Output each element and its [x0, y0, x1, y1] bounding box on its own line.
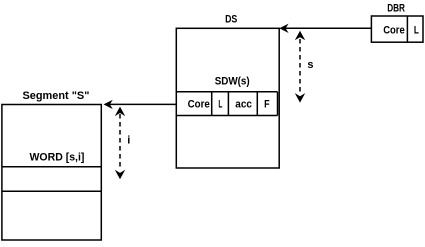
svg-text:i: i — [127, 134, 130, 146]
svg-text:L: L — [218, 99, 222, 111]
dashed line s — [299, 39, 301, 95]
arrowhead s up — [295, 31, 305, 41]
svg-text:s: s — [307, 59, 313, 71]
DBR box — [371, 16, 423, 42]
dashed line i — [119, 114, 121, 170]
DS box — [176, 28, 279, 168]
svg-text:DS: DS — [225, 13, 237, 25]
svg-text:Core: Core — [188, 99, 210, 111]
svg-text:Core: Core — [383, 25, 405, 37]
SDW row bottom line — [176, 115, 277, 117]
arrowhead i up — [115, 107, 125, 117]
SDW row divider Core|L — [211, 92, 213, 116]
arrowhead s down — [295, 93, 305, 103]
svg-text:DBR: DBR — [387, 3, 405, 15]
arrowhead into Segment corner — [104, 100, 113, 109]
svg-text:F: F — [264, 98, 270, 110]
svg-text:L: L — [414, 25, 419, 37]
Segment S box — [2, 105, 101, 241]
wire SDW to Segment — [107, 103, 176, 105]
Segment divider word bottom — [2, 190, 101, 192]
SDW row top line — [176, 91, 277, 93]
arrowhead into DS corner — [279, 24, 288, 33]
SDW row divider acc|F — [256, 92, 258, 116]
svg-text:Segment "S": Segment "S" — [23, 90, 90, 102]
DBR divider Core|L — [406, 16, 408, 42]
svg-text:acc: acc — [235, 98, 252, 110]
arrowhead i down — [115, 170, 125, 180]
svg-text:SDW(s): SDW(s) — [215, 76, 250, 88]
svg-text:WORD [s,i]: WORD [s,i] — [30, 152, 85, 164]
SDW row divider L|acc — [227, 92, 229, 116]
SDW row right edge — [277, 92, 279, 116]
wire DBR to DS — [283, 27, 371, 29]
Segment divider word top — [2, 166, 101, 168]
